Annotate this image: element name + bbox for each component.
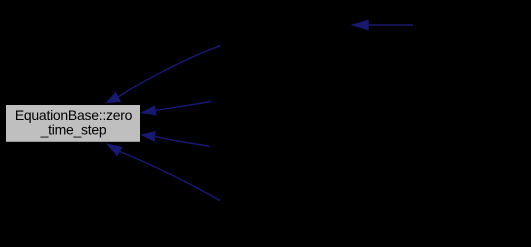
edge from second-level caller (top right horizontal) [352,20,413,29]
edge from caller node 2 [142,101,212,114]
svg-text:_time_step: _time_step [40,122,107,138]
edge from caller node 3 [142,132,210,147]
edge from caller node 4 (bottom) [107,144,220,200]
edge from caller node 1 (top) [107,46,221,103]
node EquationBase::zero_time_step [6,105,141,143]
